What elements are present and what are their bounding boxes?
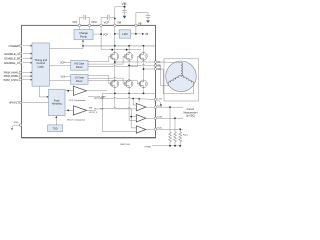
svg-text:ENABLE_C: ENABLE_C [4, 61, 19, 65]
svg-text:PWM_BH/BL: PWM_BH/BL [4, 75, 19, 78]
svg-text:Driver: Driver [76, 66, 83, 69]
wire ground bus [152, 142, 181, 145]
wire TSD to fault [55, 118, 57, 125]
wire SOC out [146, 128, 154, 130]
pin PWM_AH/AL [4, 71, 33, 74]
wire timing to HS driver [49, 65, 70, 67]
wire source C to amp3 [102, 93, 135, 131]
pin SA [154, 61, 161, 64]
wire source B to amp2 [129, 93, 136, 120]
junction gnd A [169, 145, 171, 147]
wire VM drain bus [83, 45, 156, 47]
pin SOA [154, 105, 162, 109]
junction RB [174, 117, 176, 119]
wire CPH into charge pump [89, 27, 91, 30]
svg-text:Current: Current [187, 108, 195, 111]
svg-text:TSD: TSD [53, 128, 58, 131]
charge pump U-CP [74, 30, 93, 40]
junction bus CP [82, 45, 84, 47]
pin CPL [72, 20, 80, 27]
wire SA line [115, 61, 154, 62]
wire HS gate C [88, 56, 139, 66]
svg-text:SC: SC [157, 68, 161, 71]
svg-text:LDO: LDO [122, 32, 128, 36]
pin GND [14, 122, 22, 126]
wire phase A vertical [114, 61, 116, 80]
motor enclosure [164, 59, 199, 101]
resistor RS_A [169, 132, 172, 143]
junction src A [114, 93, 116, 95]
inductor winding left [168, 76, 181, 84]
arrow VREF stub [158, 101, 161, 105]
junction VCP-VM [114, 18, 116, 20]
transistor QAL [110, 80, 118, 88]
wire VCP gate rail [101, 49, 141, 51]
wire SC to motor [157, 69, 194, 94]
node current measurement label [183, 108, 197, 117]
pin VCP [100, 20, 109, 26]
pin SOC [154, 128, 162, 131]
wire RB drop [174, 118, 176, 132]
junction VM-LDO [114, 33, 116, 35]
junction rail B [126, 49, 128, 51]
wire OCP out [87, 90, 107, 92]
wire fault to OCP [65, 90, 73, 92]
wire ref1 [103, 97, 154, 105]
svg-text:VCP: VCP [103, 34, 108, 37]
node VM label [122, 2, 127, 7]
node VCP stub HS [60, 62, 71, 64]
svg-text:Logic: Logic [38, 64, 45, 68]
wire drain QCH [143, 46, 145, 52]
capacitor VM bypass [122, 7, 127, 16]
svg-text:VM: VM [122, 2, 127, 6]
svg-text:PWM_AH/AL: PWM_AH/AL [4, 72, 19, 75]
pin VREF [154, 98, 162, 101]
junction SC [143, 68, 145, 70]
transistor QAH [110, 52, 118, 60]
inductor winding top [181, 62, 182, 76]
op-amp CSA1 [136, 103, 146, 110]
HS gate driver U2 [71, 60, 88, 70]
svg-text:UVLO Comparator: UVLO Comparator [67, 118, 85, 121]
wire UVLO out [87, 109, 96, 111]
fault handling U4 [49, 89, 66, 115]
wire ref2 [103, 107, 135, 116]
op-amp OCP comparator [73, 86, 86, 95]
svg-text:UVLO_F: UVLO_F [89, 112, 98, 114]
pin SOB [154, 117, 162, 120]
wire charge pump output to VCP [93, 27, 101, 50]
pin ENBL_B [5, 56, 33, 60]
junction SA [114, 61, 116, 63]
junction VCP rail [100, 33, 102, 35]
svg-text:nFAULT: nFAULT [9, 101, 19, 105]
pin PWM_CH/CL [3, 78, 32, 81]
wire phase B vertical [128, 61, 130, 80]
junction bus B [128, 45, 130, 47]
junction rail A [111, 49, 113, 51]
junction gnd B [174, 145, 176, 147]
svg-text:VCP: VCP [60, 63, 65, 65]
wire drain QBH [128, 46, 130, 52]
junction OCP in [67, 90, 69, 92]
capacitor CP flying [80, 15, 90, 26]
wire source A to amp1 [115, 93, 136, 109]
junction ref2 [130, 116, 132, 118]
svg-text:VB: VB [145, 33, 149, 36]
junction bus C [143, 45, 145, 47]
pin CPH [88, 20, 97, 27]
junction LDO-VB [135, 33, 137, 35]
wire SC line [144, 68, 155, 70]
svg-text:OCP Comparator: OCP Comparator [69, 99, 86, 102]
svg-text:ENABLE_B: ENABLE_B [5, 56, 20, 60]
wire HS gate B [88, 56, 125, 64]
svg-text:1.8V: 1.8V [157, 99, 162, 101]
svg-text:Pump: Pump [80, 35, 88, 39]
arrow into fault [47, 96, 49, 98]
junction ref1 supply [138, 98, 140, 100]
junction RA [169, 106, 171, 108]
transistor QCH [139, 52, 147, 60]
svg-text:Handling: Handling [52, 103, 62, 106]
op-amp CSA3 [136, 126, 146, 133]
svg-text:nSLEEP: nSLEEP [8, 44, 19, 48]
capacitor VCP storage [101, 15, 115, 26]
junction ref1 T1 [132, 98, 134, 100]
ground VB cap [146, 20, 150, 23]
regulator LDO [119, 30, 131, 38]
junction RC [179, 128, 181, 130]
arrow GND stub [12, 125, 20, 129]
wire SOB external [157, 117, 183, 119]
svg-text:VLS: VLS [61, 77, 66, 79]
wire LS source bus [102, 88, 155, 93]
op-amp UVLO comparator [73, 106, 86, 115]
wire timing to charge pump [49, 41, 83, 48]
wire fault to UVLO [65, 109, 73, 111]
pin VB [135, 21, 142, 26]
wire timing to LS driver [49, 79, 70, 81]
resistor RS_C [179, 132, 182, 143]
svg-text:ENABLE_A: ENABLE_A [5, 52, 20, 56]
wire SA to motor [157, 61, 181, 63]
wire drain QAH [114, 46, 116, 52]
svg-text:(to ADC): (to ADC) [186, 115, 195, 118]
junction src C [143, 93, 145, 95]
pin nFAULT [9, 101, 49, 105]
wire ref2 branch [131, 117, 136, 128]
wire SOA external [157, 106, 183, 108]
svg-text:VM: VM [89, 108, 92, 110]
pin ENBL_A [5, 52, 33, 56]
wire SOA out [146, 106, 154, 108]
wire OCP ref stub [88, 96, 95, 98]
junction src B [128, 93, 130, 95]
IC boundary box [22, 25, 156, 137]
wire SOB out [146, 117, 154, 119]
svg-text:B0121-05: B0121-05 [121, 144, 131, 146]
pin PWM_BH/BL [4, 75, 33, 78]
wire VM pin to LDO and bus [115, 27, 119, 46]
wire LS gate B [88, 77, 125, 84]
svg-text:Charge: Charge [79, 31, 88, 35]
TSD U5 [48, 125, 63, 132]
wire SB line [129, 64, 154, 65]
inductor winding right [181, 76, 194, 84]
transistor QBH [125, 52, 133, 60]
node VLS stub LS [61, 76, 71, 78]
LS gate driver U3 [71, 74, 88, 84]
junction SB [128, 65, 130, 67]
wire LS gate A [88, 76, 110, 84]
pin ENBL_C [4, 61, 32, 65]
junction VM [124, 6, 126, 8]
capacitor VB bypass [136, 13, 150, 26]
junction bus A [114, 45, 116, 47]
pin VM [114, 20, 122, 26]
wire SOC external [157, 128, 183, 130]
junction UVLO in [67, 110, 69, 112]
wire LS gate C [88, 80, 139, 84]
wire VM to pin [115, 7, 125, 26]
transistor QBL [125, 80, 133, 88]
pin SB [154, 64, 161, 67]
svg-text:VCP: VCP [104, 20, 110, 24]
arrow TSD up [55, 116, 57, 118]
svg-text:PGND: PGND [145, 146, 152, 148]
svg-text:VB: VB [138, 21, 142, 25]
resistor RS_B [174, 132, 177, 143]
wire HS gate A [88, 56, 110, 61]
transistor QCL [139, 80, 147, 88]
ground VM cap [123, 16, 127, 19]
wire RA drop [169, 107, 171, 132]
svg-text:CPH: CPH [91, 20, 97, 24]
wire IC bottom edge emphasis [22, 137, 156, 139]
wire SB to motor [157, 66, 169, 86]
svg-text:CPL: CPL [72, 20, 78, 24]
svg-text:OCP_REF: OCP_REF [95, 97, 106, 99]
svg-text:VM: VM [117, 20, 121, 24]
wire timing to fault [39, 86, 47, 97]
svg-text:Measurement: Measurement [183, 111, 197, 114]
svg-text:GND: GND [14, 122, 19, 124]
wire RC drop [179, 129, 181, 132]
svg-text:PWM_CH/CL: PWM_CH/CL [3, 79, 19, 82]
arrow into charge pump [82, 40, 84, 42]
motor M1 [166, 61, 197, 92]
wire phase C vertical [143, 61, 145, 80]
pin nSLEEP [8, 44, 32, 48]
svg-text:Driver: Driver [76, 80, 83, 83]
wire CPL into charge pump [79, 27, 81, 30]
pin SC [154, 68, 161, 71]
wire LDO output VB [131, 27, 142, 34]
timing and control logic U1 [32, 43, 49, 86]
arrow LDO out [142, 33, 144, 35]
junction gnd C [179, 145, 181, 147]
op-amp CSA2 [136, 115, 146, 122]
